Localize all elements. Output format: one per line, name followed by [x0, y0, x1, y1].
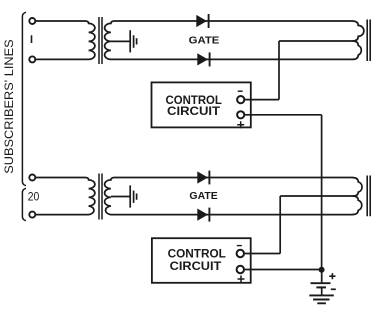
diode D4 cathode bar	[208, 208, 210, 222]
terminal: control 1 minus	[237, 96, 244, 103]
terminal: line 20 tip	[29, 175, 35, 181]
ground: battery ground	[309, 295, 334, 303]
terminal: line 1 ring	[29, 56, 35, 62]
svg-text:CIRCUIT: CIRCUIT	[170, 259, 222, 273]
svg-text:GATE: GATE	[189, 36, 220, 47]
diode D3 (top gate diode, line 20)	[197, 171, 208, 183]
label: line number 1	[31, 35, 33, 43]
terminal: control 2 minus	[237, 250, 244, 257]
wire: T1 secondary center tap	[111, 40, 130, 42]
terminal: line 20 ring	[29, 212, 35, 218]
wire: vertical from control 2 minus up to mid rail	[279, 196, 281, 254]
terminal: line 1 tip	[29, 18, 35, 24]
bracket: subscribers' lines (lower segment)	[22, 188, 26, 220]
wire: control 2 minus lead	[244, 253, 280, 255]
wire: mid rail (line 20 output center tap)	[280, 195, 353, 197]
diode D1 (top gate diode, line 1)	[196, 15, 207, 27]
wire: T3 secondary center tap	[111, 196, 130, 198]
battery B1 positive plate	[311, 282, 331, 284]
wire: junction to battery	[321, 270, 323, 283]
ground: T3 center tap (sideways)	[130, 185, 136, 207]
diode D2 cathode bar	[209, 52, 211, 66]
terminal: control 2 plus	[237, 266, 244, 273]
transformer T4 core	[367, 176, 370, 217]
svg-text:SUBSCRIBERS' LINES: SUBSCRIBERS' LINES	[2, 39, 16, 174]
transformer T1 core	[99, 17, 102, 64]
transformer T3 primary winding with lead wires	[35, 178, 95, 215]
wire: bottom rail of line 20 gate	[115, 214, 353, 216]
wire: control 2 plus lead to junction	[244, 269, 322, 271]
label: minus sign (box 2)	[237, 245, 242, 247]
battery B1 negative plate	[316, 286, 326, 288]
transformer T1 primary winding with lead wires	[35, 21, 95, 59]
control circuit box 1	[152, 82, 251, 127]
label: minus sign (box 1)	[238, 90, 243, 92]
wire: control 1 plus lead	[244, 114, 321, 116]
svg-text:20: 20	[28, 189, 40, 203]
label: plus sign (box 2)	[238, 276, 245, 283]
transformer T3 core	[99, 174, 102, 220]
node: battery junction	[319, 267, 325, 273]
wire: bottom rail of line 1 gate	[115, 58, 353, 60]
label: plus sign (box 1)	[237, 121, 244, 128]
label: battery plus	[329, 273, 335, 279]
label: battery minus	[331, 288, 336, 290]
transformer T4 output winding loop 2	[352, 196, 362, 215]
ground: T1 center tap (sideways)	[130, 30, 136, 52]
wire: top rail of line 1 gate	[115, 20, 353, 22]
control circuit box 2	[152, 238, 251, 283]
terminal: control 1 plus	[237, 111, 244, 118]
svg-text:CIRCUIT: CIRCUIT	[167, 104, 220, 118]
transformer T3 secondary winding	[105, 178, 115, 215]
wire: top rail of line 20 gate	[115, 177, 353, 179]
wire: control 1 minus lead	[244, 99, 279, 101]
wire: battery to ground	[321, 287, 323, 295]
diode D1 cathode bar	[208, 14, 210, 28]
wire: mid rail (line 1 output center tap)	[279, 40, 353, 42]
transformer T4 output winding loop 1	[352, 178, 362, 197]
diode D3 cathode bar	[208, 171, 210, 185]
diode D2 (bottom gate diode, line 1)	[197, 53, 208, 65]
svg-text:GATE: GATE	[189, 191, 218, 202]
wire: vertical from mid rail down to control 1 minus	[278, 41, 280, 100]
diode D4 (bottom gate diode, line 20)	[197, 209, 208, 221]
bracket: subscribers' lines (upper segment)	[22, 12, 26, 185]
transformer T1 secondary winding	[105, 21, 115, 59]
transformer T2 output winding loop 1	[352, 21, 364, 41]
transformer T2 output winding loop 2	[352, 41, 361, 59]
transformer T2 core	[367, 20, 370, 62]
wire: vertical battery bus from control 1 plus	[321, 115, 323, 270]
